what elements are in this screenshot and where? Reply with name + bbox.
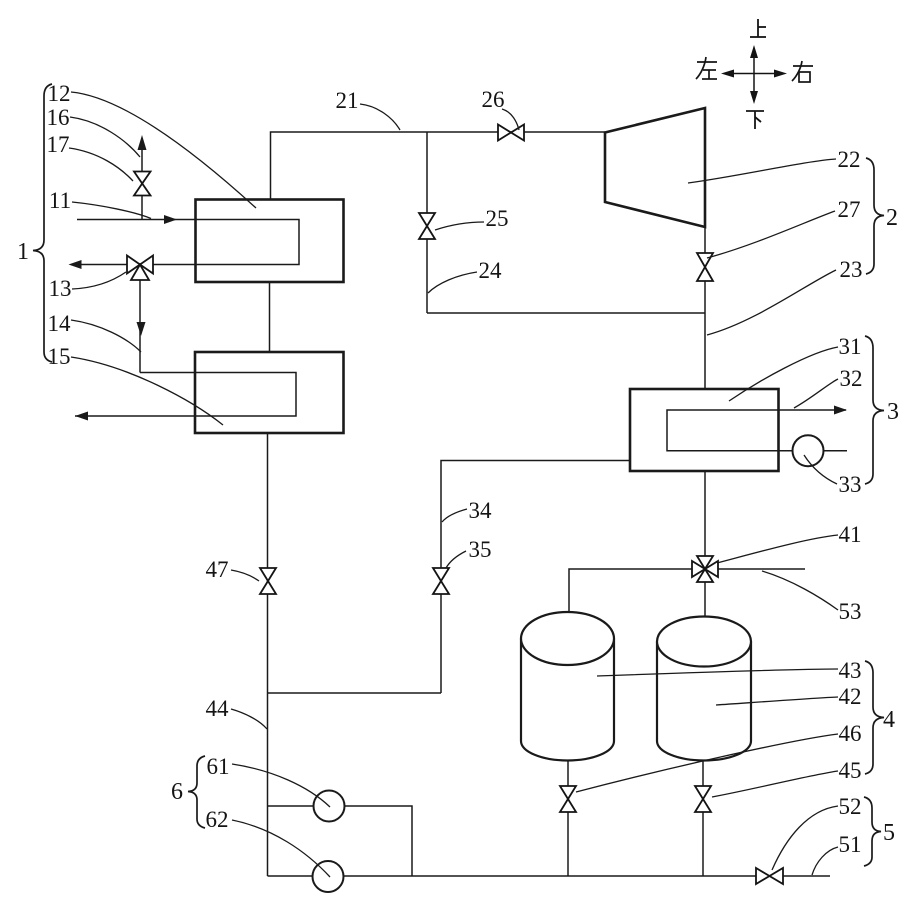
wire inlet 16 vertical [141,147,143,172]
leader 45 [712,771,838,797]
svg-text:44: 44 [206,696,230,721]
svg-text:5: 5 [883,820,895,846]
svg-text:32: 32 [840,366,863,391]
svg-text:45: 45 [839,758,862,783]
leader 13 [72,272,126,289]
wire branch 24 riser [426,132,428,313]
leader 15 [71,357,223,425]
leader 23 [707,270,836,335]
wire valve41 to tank43 [569,569,692,613]
arrow left outlet line 13 [69,260,82,269]
leader 16 [70,117,140,157]
arrow right on line 11 [164,215,177,224]
wire turbine outlet column 23 [704,227,706,389]
heat exchanger box 3 (31) [630,389,779,471]
valve 25 [419,213,435,239]
wire line21 horizontal [271,132,606,200]
svg-text:1: 1 [17,239,29,265]
wire condenser outlet column [704,471,706,556]
wire cross line at y693 [268,692,442,694]
svg-text:22: 22 [838,147,861,172]
leader 27 [707,211,835,258]
leader 31 [729,347,838,401]
wire inner coil box3 line 32 [667,410,847,451]
wire pump61 branch [268,806,413,876]
svg-text:17: 17 [47,132,70,157]
leader 21 [360,104,400,130]
valve 26 [498,125,524,141]
svg-text:35: 35 [469,537,492,562]
leader 26 [502,109,519,130]
wire inner coil HX2 line 14/15 [75,373,296,417]
svg-text:6: 6 [171,779,183,805]
arrow right outlet 32 [834,406,847,415]
arrow down line 14 [137,322,146,336]
wire line 24 horizontal [427,312,705,314]
leader 35 [446,551,466,568]
heat exchanger box 1 [196,200,344,283]
fan 33 [793,435,824,466]
leader 12 [71,92,256,208]
compass label left (zuo) [696,57,717,79]
brace 6 [188,756,205,828]
leader 42 [716,697,838,705]
svg-text:61: 61 [207,754,230,779]
brace 5 [864,797,881,866]
leader 14 [71,320,141,352]
leader 24 [428,272,477,293]
svg-text:25: 25 [486,206,509,231]
wire drain of valve13 down [139,277,141,373]
svg-text:16: 16 [47,105,70,130]
svg-text:46: 46 [839,721,862,746]
leader 34 [442,509,467,522]
svg-text:41: 41 [839,522,862,547]
svg-text:21: 21 [336,88,359,113]
svg-text:15: 15 [48,344,71,369]
leader 41 [717,535,838,563]
leader 46 [576,734,838,792]
svg-text:2: 2 [886,205,898,231]
svg-text:3: 3 [887,399,899,425]
brace 4 [865,661,884,774]
compass rose [726,50,782,99]
valve 27 [697,253,713,281]
valve 35 [433,568,449,594]
svg-text:33: 33 [839,472,862,497]
leader 61 [232,764,330,807]
svg-text:52: 52 [839,794,862,819]
svg-text:14: 14 [48,311,72,336]
svg-text:43: 43 [839,658,862,683]
wire tank43 drain [567,759,569,786]
wire line 11 inner coil HX1 [71,220,299,265]
leader 32 [794,379,838,408]
pump 61 [314,791,345,822]
brace 2 [866,158,884,274]
svg-text:4: 4 [883,707,895,733]
wire bottom line 51 [268,875,757,877]
svg-text:47: 47 [206,557,229,582]
arrow left outlet line 15 [75,412,88,421]
svg-text:26: 26 [482,87,505,112]
pump 62 [313,861,344,892]
leader 62 [232,820,330,877]
leader 52 [772,806,838,870]
leader 44 [231,709,267,729]
heat exchanger box 2 [195,352,344,433]
svg-text:51: 51 [839,832,862,857]
leader 17 [69,148,133,181]
tank 43 [521,612,614,761]
valve 47 [260,568,276,594]
arrow up vent 16 [138,135,147,150]
wire tank42 drain [702,759,704,786]
compass label right (you) [792,61,813,82]
valve 45 [695,786,711,812]
wire valve41 to tank42 [704,582,706,618]
wire main left column 44 [267,433,269,876]
wire stub 53 right of valve41 [718,568,805,570]
wire line 34 [441,461,630,694]
svg-text:13: 13 [49,276,72,301]
valve 51 [756,868,783,884]
brace 3 [865,336,884,484]
compass label down (xia) [746,111,764,129]
leader 22 [688,159,836,183]
svg-text:34: 34 [469,498,493,523]
svg-text:24: 24 [479,258,503,283]
brace 1 [33,84,52,362]
leader 53 [762,571,838,610]
leader 25 [435,222,484,230]
svg-text:53: 53 [839,599,862,624]
leader 51 [812,847,838,875]
valve 46 [560,786,576,812]
leader 43 [597,669,838,676]
compass label up (shang) [750,19,766,37]
wire riser between HX1 and HX2 [269,282,271,352]
svg-text:12: 12 [48,81,71,106]
svg-text:31: 31 [839,334,862,359]
leader 47 [231,570,259,581]
svg-text:42: 42 [839,684,862,709]
leader 11 [72,202,151,219]
valve 17 [134,172,151,196]
svg-text:62: 62 [206,807,229,832]
leader 33 [804,455,837,484]
svg-text:27: 27 [838,197,861,222]
three-way valve 13 [127,256,153,281]
svg-text:11: 11 [49,188,71,213]
svg-text:23: 23 [840,257,863,282]
turbine 22 [605,108,705,227]
tank 42 [657,617,751,761]
four-way valve 41 [692,556,718,582]
